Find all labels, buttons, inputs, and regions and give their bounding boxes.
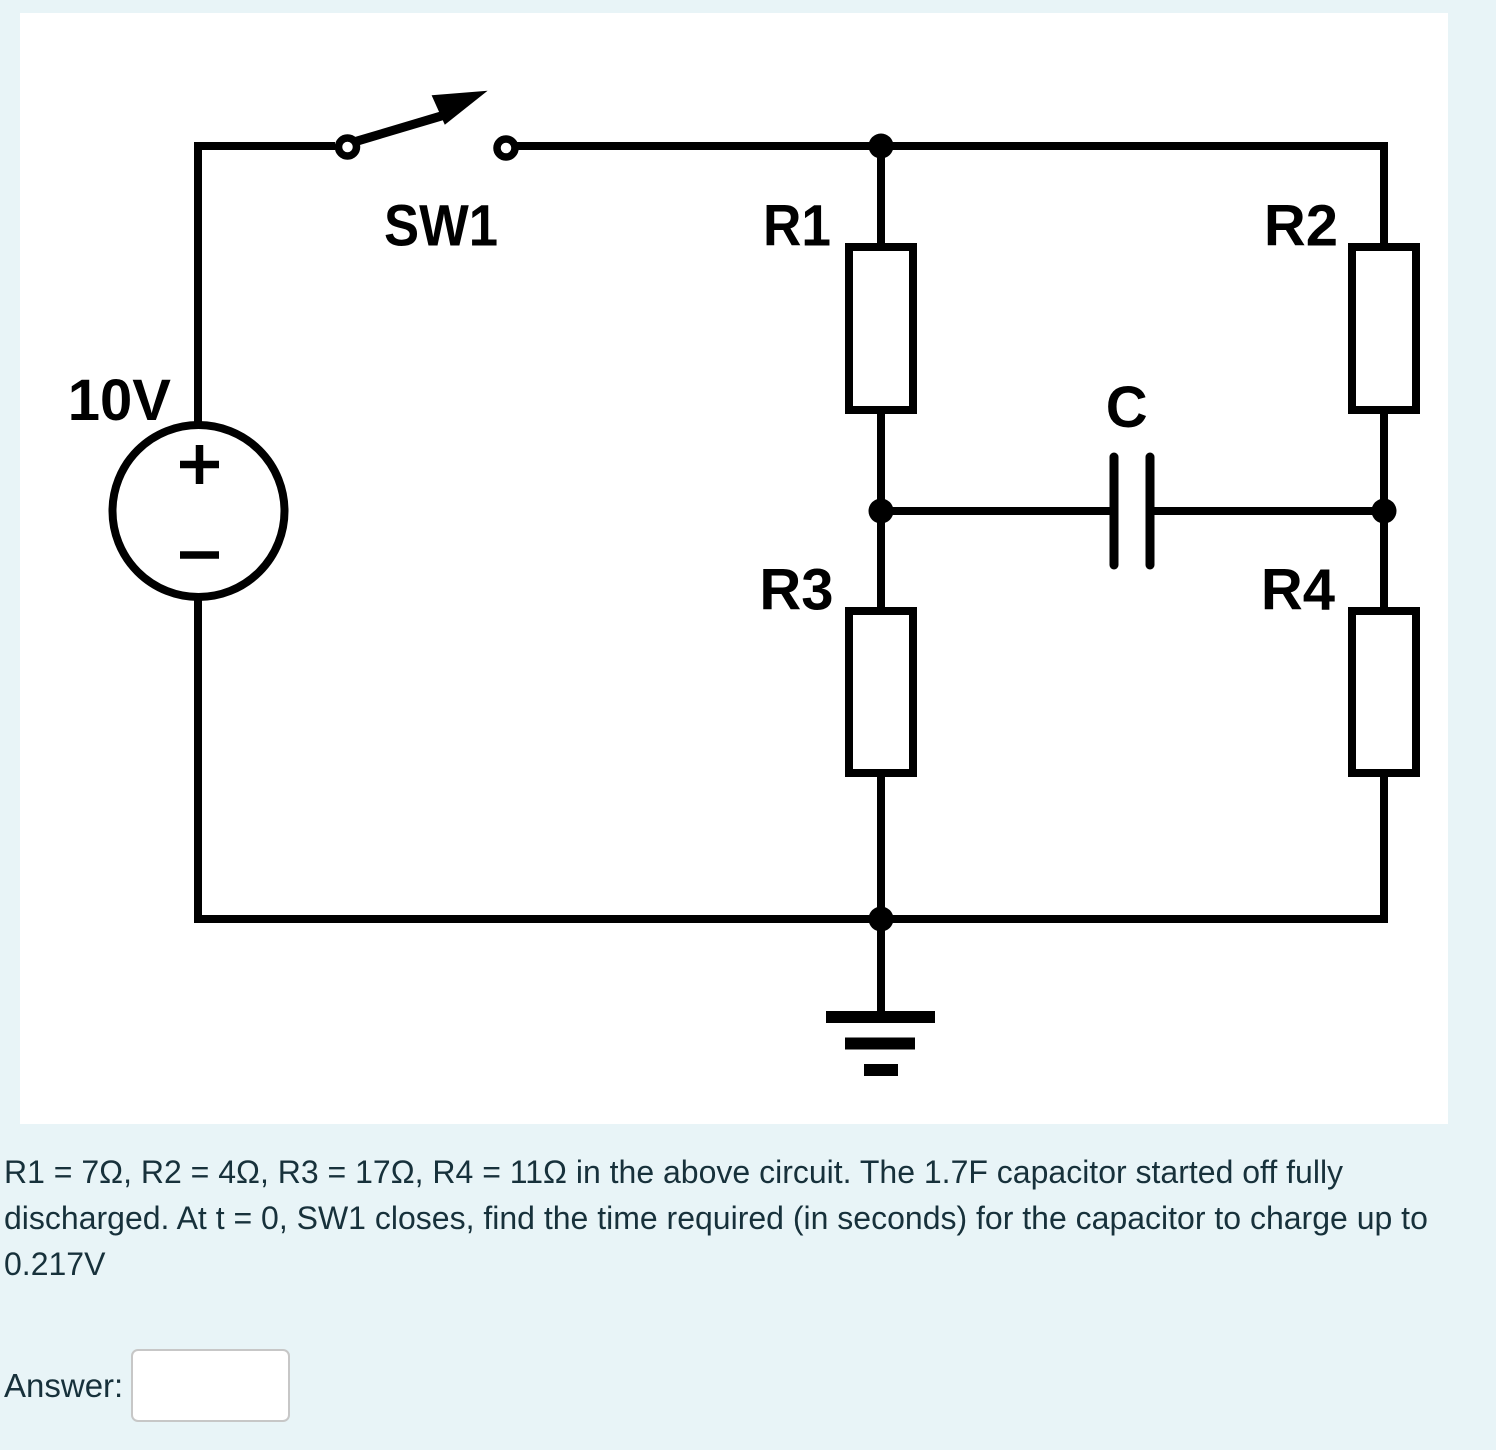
resistor R4 body [1352, 611, 1416, 773]
wire: capacitor right plate to node C [1154, 507, 1384, 515]
switch SW1 arrowhead [432, 91, 488, 125]
question text [4, 1149, 1474, 1287]
svg-text:10V: 10V [68, 368, 172, 433]
switch SW1 lever [354, 114, 448, 142]
white circuit panel [20, 13, 1448, 1124]
wire: R1 top stub [877, 146, 885, 249]
voltage source V1 circle [113, 425, 285, 597]
svg-text:R3: R3 [759, 558, 833, 623]
svg-text:R4: R4 [1261, 557, 1335, 622]
resistor R2 body [1352, 247, 1416, 410]
ground node junction dot [869, 907, 894, 932]
wire: node A to top-right corner down to R2 top [881, 146, 1384, 249]
node B junction dot [869, 499, 894, 524]
svg-text:C: C [1106, 375, 1148, 440]
ground bar 2 [845, 1038, 915, 1050]
resistor R1 body [849, 247, 913, 410]
svg-text:R2: R2 [1264, 194, 1338, 259]
switch SW1 left contact [339, 138, 357, 156]
wire: node C to R4 top [1380, 511, 1388, 613]
answer input box [131, 1349, 290, 1423]
wire: node B to R3 top [877, 511, 885, 613]
switch SW1 right contact [497, 139, 515, 157]
wire: switch right contact to node A [517, 142, 881, 150]
wire: R1 bottom to node B [877, 408, 885, 511]
node C junction dot [1372, 499, 1397, 524]
node A junction dot [869, 134, 894, 159]
capacitor C right plate [1146, 457, 1155, 565]
voltage source minus sign [180, 551, 219, 559]
capacitor C left plate [1110, 457, 1119, 565]
voltage source plus sign [180, 445, 219, 484]
wire: top-left from voltage source up and right to switch left contact [198, 146, 335, 429]
wire: R4 bottom to bottom-right corner to ground node [881, 771, 1384, 919]
wire: node B to capacitor left plate [881, 507, 1110, 515]
wire: R3 bottom to ground node [877, 771, 885, 919]
svg-text:SW1: SW1 [384, 194, 498, 259]
answer label [4, 1367, 123, 1405]
wire: R2 bottom stub to node C [1380, 408, 1388, 511]
svg-text:R1: R1 [763, 194, 831, 259]
wire: voltage source bottom to bottom-left corner to ground node [198, 593, 881, 919]
ground bar 3 [864, 1064, 898, 1076]
ground bar 1 [826, 1011, 935, 1023]
resistor R3 body [849, 611, 913, 773]
ground stub wire [877, 919, 885, 1017]
